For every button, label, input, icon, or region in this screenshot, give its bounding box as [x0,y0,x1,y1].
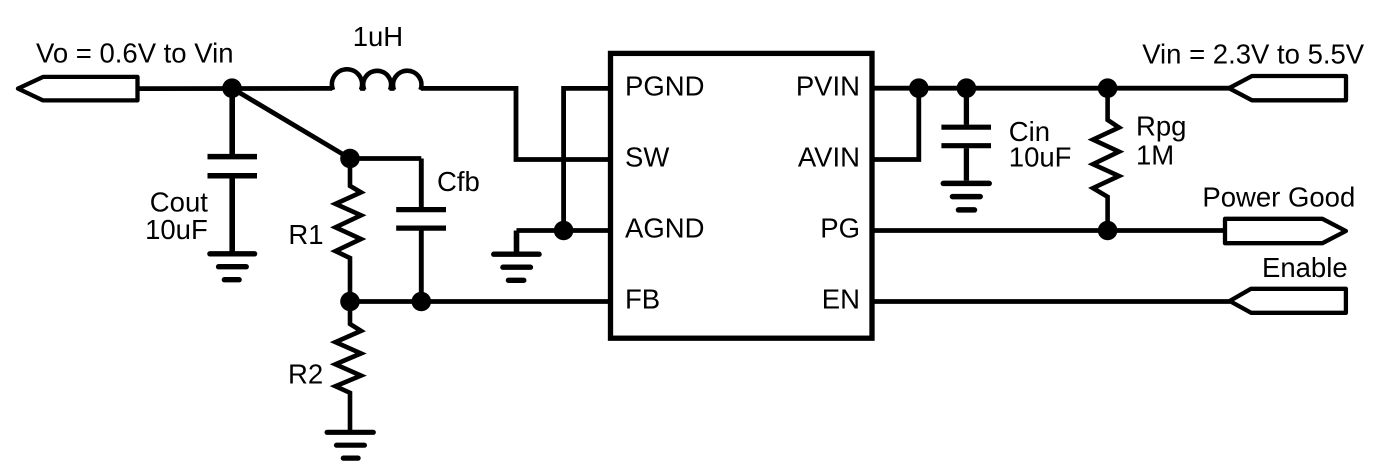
wire AVIN to PVIN [872,88,919,159]
wire AGND net [517,228,613,233]
resistor R1 [336,159,362,302]
svg-text:Enable: Enable [1262,252,1348,283]
svg-text:SW: SW [625,142,669,173]
resistor R2 [336,302,362,431]
wire node A to node B (diagonal) [232,88,350,158]
svg-text:Vo = 0.6V to Vin: Vo = 0.6V to Vin [36,38,234,69]
svg-text:PG: PG [820,213,860,244]
capacitor Cout [208,88,258,252]
port Vin (input flag) [1229,76,1346,100]
node Rpg bottom (PG net) [1098,221,1118,241]
svg-text:AGND: AGND [625,213,704,244]
svg-text:10uF: 10uF [1009,142,1072,173]
wire PGND pin down to AGND [564,88,612,230]
svg-text:Cout: Cout [150,187,208,218]
node A (Vo / Cout / divider junction) [222,78,242,98]
svg-text:1uH: 1uH [353,21,403,52]
svg-text:Power Good: Power Good [1202,182,1355,213]
inductor L1 1uH [332,69,422,91]
svg-text:PGND: PGND [625,71,704,102]
svg-text:R1: R1 [288,219,323,250]
node Rpg top [1098,78,1118,98]
wire AGND to ground [514,231,520,253]
svg-text:PVIN: PVIN [796,71,860,102]
ground (R2) [327,432,373,458]
node PVIN/AVIN junction [909,78,929,98]
svg-text:EN: EN [822,284,860,315]
node B (R1 / Cfb top) [340,149,360,169]
port Vo (output flag, left) [18,77,138,101]
ground (Cout) [210,254,255,280]
wire node B to Cfb [350,156,421,161]
svg-text:Rpg: Rpg [1136,110,1186,141]
op IC U1 (converter block) [611,53,873,338]
wire FB net [350,299,612,304]
svg-text:R2: R2 [288,359,323,390]
svg-text:Vin = 2.3V to 5.5V: Vin = 2.3V to 5.5V [1142,38,1365,69]
svg-text:1M: 1M [1136,140,1174,171]
svg-text:Cfb: Cfb [437,166,480,197]
svg-text:AVIN: AVIN [798,142,860,173]
wire PG net [872,228,1225,233]
svg-text:10uF: 10uF [145,214,208,245]
resistor Rpg [1093,88,1119,230]
node Cin top [957,78,977,98]
port Power Good (output flag, right) [1225,219,1346,243]
ground (AGND) [494,254,539,280]
wire PVIN net [872,86,1229,91]
node C (R1 bottom / FB) [340,292,360,312]
wire EN net [872,299,1230,304]
capacitor Cfb [396,159,446,302]
port Enable (input flag) [1230,289,1346,313]
wire inductor to SW pin [421,88,612,159]
ground (Cin) [943,183,989,210]
capacitor Cin [941,88,991,180]
svg-text:FB: FB [625,284,660,315]
node AGND junction [554,221,574,241]
node D (Cfb bottom / FB) [412,292,432,312]
wire Vo flag to inductor [139,86,332,91]
